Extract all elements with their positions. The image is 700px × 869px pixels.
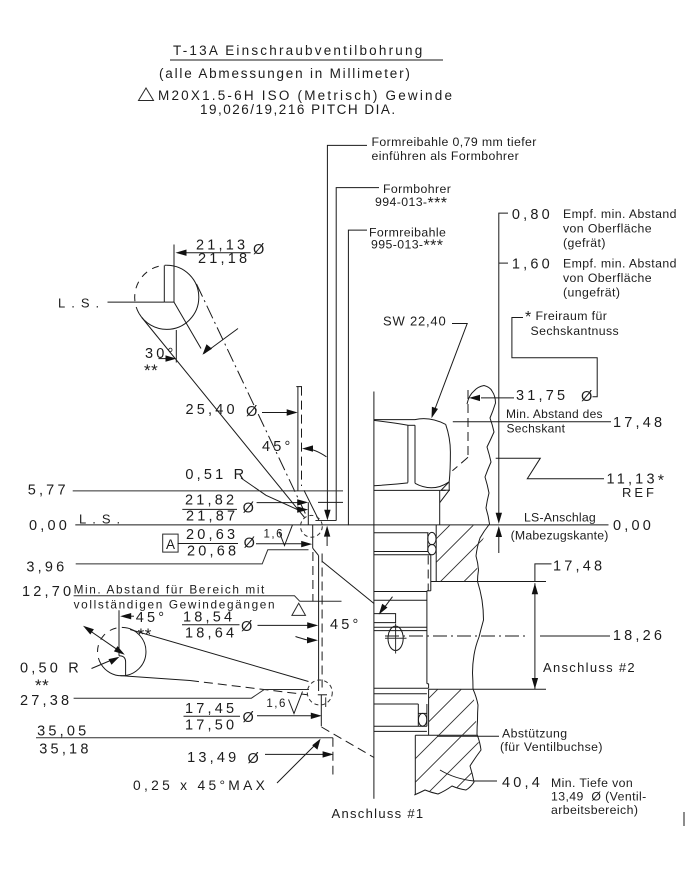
svg-text:20,63: 20,63 bbox=[186, 527, 238, 543]
port 2 upper edge bbox=[431, 581, 546, 583]
svg-text:45°: 45° bbox=[136, 610, 168, 626]
svg-text:Ø: Ø bbox=[248, 751, 262, 767]
detail circle lower (0,50 R) bbox=[101, 627, 146, 675]
incomplete thread hidden line bbox=[312, 552, 314, 602]
lower seat corner step bbox=[318, 694, 327, 696]
hex right face bottom arc bbox=[415, 482, 449, 488]
pilot bore wall bbox=[320, 695, 322, 727]
page tick bottom right bbox=[683, 812, 685, 826]
bore edge in detail bbox=[163, 265, 165, 302]
svg-text:Ø: Ø bbox=[243, 710, 257, 726]
band leader bbox=[381, 597, 393, 612]
svg-text:M20X1.5-6H ISO (Metrisch) Gewi: M20X1.5-6H ISO (Metrisch) Gewinde bbox=[158, 88, 454, 103]
svg-text:17,48: 17,48 bbox=[613, 415, 665, 431]
cross hole ellipse bbox=[388, 626, 403, 650]
svg-text:13,49 Ø (Ventil-: 13,49 Ø (Ventil- bbox=[551, 790, 647, 804]
hex right edge bbox=[446, 424, 451, 481]
svg-text:0,00: 0,00 bbox=[29, 518, 70, 534]
L.S. leader bbox=[108, 301, 165, 303]
hex clearance dashed bbox=[441, 489, 450, 491]
svg-text:Sechskantnuss: Sechskantnuss bbox=[531, 324, 620, 338]
svg-text:Ø: Ø bbox=[241, 619, 255, 635]
svg-text:Ø: Ø bbox=[253, 242, 267, 258]
angular arrow on chamfer bbox=[204, 329, 238, 354]
svg-text:3,96: 3,96 bbox=[26, 560, 67, 576]
svg-text:45°: 45° bbox=[262, 439, 294, 455]
Anschluss 2 dimension line bbox=[534, 583, 536, 689]
valve shoulder right edge bbox=[439, 491, 441, 525]
svg-text:A: A bbox=[166, 537, 175, 552]
datum box A bbox=[163, 534, 178, 552]
valve mid section bbox=[426, 591, 428, 684]
svg-text:18,26: 18,26 bbox=[613, 628, 665, 644]
svg-text:einführen als Formbohrer: einführen als Formbohrer bbox=[372, 149, 520, 163]
svg-text:0,25 x 45°MAX: 0,25 x 45°MAX bbox=[133, 778, 268, 793]
svg-text:arbeitsbereich): arbeitsbereich) bbox=[551, 803, 638, 817]
hex bottom bbox=[374, 489, 446, 491]
thread triangle symbol bbox=[292, 603, 306, 615]
step face in detail bbox=[164, 301, 174, 303]
svg-text:18,54: 18,54 bbox=[183, 610, 235, 626]
hex top bbox=[374, 419, 446, 425]
svg-text:vollständigen Gewindegängen: vollständigen Gewindegängen bbox=[74, 598, 277, 612]
bracket for 0,80 / 1,60 notes bbox=[499, 213, 508, 517]
thread note triangle bbox=[139, 88, 154, 101]
svg-text:(für Ventilbuchse): (für Ventilbuchse) bbox=[500, 740, 603, 754]
extension line for 21,13 bbox=[173, 245, 175, 303]
svg-text:Min. Tiefe von: Min. Tiefe von bbox=[551, 776, 633, 790]
valve thread section bbox=[430, 555, 432, 591]
hidden cone to working bore bbox=[322, 727, 375, 758]
reamer depth line bbox=[315, 520, 336, 522]
detail circle upper (L.S.) bbox=[139, 265, 199, 329]
Freiraum bracket leader bbox=[512, 318, 597, 397]
svg-text:Min. Abstand für Bereich mit: Min. Abstand für Bereich mit bbox=[74, 583, 266, 597]
svg-text:Abstützung: Abstützung bbox=[502, 727, 568, 741]
hatch upper block bbox=[135, 460, 609, 840]
seat step arrows (1,6 band) bbox=[324, 526, 330, 537]
svg-text:L.S.: L.S. bbox=[58, 296, 105, 311]
datum line 0,00 / seat line bbox=[75, 524, 608, 526]
svg-text:von Oberfläche: von Oberfläche bbox=[563, 222, 652, 236]
bore wall right of valve bbox=[435, 525, 437, 582]
svg-text:1,6: 1,6 bbox=[266, 698, 287, 710]
projection line A upper bbox=[142, 318, 305, 518]
seat chamfer bbox=[313, 548, 319, 555]
svg-text:17,48: 17,48 bbox=[553, 559, 605, 575]
svg-text:(ungefrät): (ungefrät) bbox=[563, 286, 620, 300]
svg-text:**: ** bbox=[144, 361, 158, 380]
svg-text:19,026/19,216 PITCH DIA.: 19,026/19,216 PITCH DIA. bbox=[200, 102, 397, 117]
svg-text:**: ** bbox=[138, 625, 152, 644]
svg-text:Formbohrer: Formbohrer bbox=[383, 182, 451, 196]
SW leader bbox=[434, 324, 467, 413]
svg-text:21,87: 21,87 bbox=[186, 509, 238, 525]
hatch lower blocks bbox=[287, 460, 700, 840]
seat bore wall bbox=[312, 525, 314, 548]
valve lines bbox=[374, 626, 427, 628]
corner detail circle upper bbox=[301, 515, 323, 537]
svg-text:21,82: 21,82 bbox=[185, 493, 237, 509]
svg-text:Ø: Ø bbox=[243, 501, 257, 517]
title underline bbox=[170, 59, 443, 61]
svg-text:35,05: 35,05 bbox=[37, 724, 89, 740]
svg-text:0,80: 0,80 bbox=[512, 207, 553, 223]
svg-text:Anschluss #1: Anschluss #1 bbox=[332, 806, 425, 821]
svg-text:17,50: 17,50 bbox=[185, 718, 237, 734]
callout leader 1 (Formreibahle 0,79) bbox=[327, 145, 367, 514]
o-ring groove upper bbox=[427, 533, 429, 552]
seat band rect bbox=[374, 614, 396, 623]
svg-text:1,6: 1,6 bbox=[264, 529, 285, 541]
chamfer to thread bore bbox=[304, 490, 319, 520]
clearance outline dashed bbox=[467, 390, 469, 457]
projection line B upper (dash-dot) bbox=[197, 284, 307, 516]
svg-text:Sechskant: Sechskant bbox=[507, 422, 566, 436]
svg-text:REF: REF bbox=[622, 485, 657, 500]
svg-text:SW 22,40: SW 22,40 bbox=[383, 314, 446, 329]
svg-text:27,38: 27,38 bbox=[20, 693, 72, 709]
svg-text:Min. Abstand des: Min. Abstand des bbox=[506, 407, 603, 421]
o-ring groove lower bbox=[374, 703, 418, 705]
datum arrow up (right) bbox=[496, 526, 502, 537]
svg-text:Empf. min. Abstand: Empf. min. Abstand bbox=[563, 257, 677, 271]
chamfer line in detail bbox=[174, 302, 201, 348]
svg-text:LS-Anschlag: LS-Anschlag bbox=[524, 511, 596, 525]
callout leader 3 (Formreibahle 995) bbox=[348, 230, 367, 525]
30 deg reference line bbox=[175, 330, 177, 363]
svg-text:1,60: 1,60 bbox=[512, 257, 553, 273]
valve body below seat bbox=[374, 532, 429, 534]
long diagonal to band bbox=[322, 562, 374, 604]
working bore hidden wall bbox=[332, 738, 334, 775]
svg-text:21,18: 21,18 bbox=[198, 251, 250, 267]
thread bore wall upper bbox=[307, 502, 309, 525]
projection line A lower bbox=[130, 630, 309, 682]
svg-text:20,68: 20,68 bbox=[187, 544, 239, 560]
callout leader 2 (Formbohrer) bbox=[336, 188, 379, 521]
hex corner flap bbox=[440, 482, 450, 503]
svg-text:0,00: 0,00 bbox=[613, 518, 654, 534]
svg-text:(alle Abmessungen in Millimete: (alle Abmessungen in Millimeter) bbox=[159, 66, 412, 81]
hex facet edges bbox=[407, 425, 409, 482]
drill bore wall bbox=[318, 556, 320, 691]
svg-text:Ø: Ø bbox=[244, 536, 258, 552]
svg-text:31,75: 31,75 bbox=[516, 388, 568, 404]
hex left facet curve bbox=[374, 420, 408, 425]
leader to hex top bbox=[453, 421, 611, 423]
radius indicator diagonal bbox=[86, 628, 123, 653]
svg-text:Ø: Ø bbox=[581, 389, 595, 405]
svg-text:T-13A Einschraubventilbohrung: T-13A Einschraubventilbohrung bbox=[173, 43, 424, 58]
thread hidden line lower bbox=[321, 554, 323, 688]
svg-text:12,70: 12,70 bbox=[22, 584, 74, 600]
svg-text:von Oberfläche: von Oberfläche bbox=[563, 271, 652, 285]
svg-text:Formreibahle 0,79 mm tiefer: Formreibahle 0,79 mm tiefer bbox=[372, 135, 537, 149]
svg-text:17,45: 17,45 bbox=[185, 701, 237, 717]
corner detail circle lower bbox=[307, 680, 332, 705]
svg-text:(gefrät): (gefrät) bbox=[563, 236, 606, 250]
section break wavy line bbox=[414, 386, 495, 796]
counterbore wall bbox=[297, 387, 299, 491]
svg-text:25,40: 25,40 bbox=[186, 402, 238, 418]
svg-text:Ø: Ø bbox=[246, 404, 260, 420]
datum arrow down (right) bbox=[496, 513, 502, 524]
svg-text:18,64: 18,64 bbox=[185, 626, 237, 642]
port 2 lower edge bbox=[429, 688, 546, 690]
svg-text:45°: 45° bbox=[330, 617, 362, 633]
svg-text:(Mabezugskante): (Mabezugskante) bbox=[511, 529, 609, 543]
support shoulder bbox=[415, 734, 477, 736]
svg-text:13,49: 13,49 bbox=[187, 750, 239, 766]
counterbore hidden line bbox=[301, 387, 303, 486]
bore top cap bbox=[296, 386, 302, 388]
svg-text:40,4: 40,4 bbox=[502, 775, 543, 791]
svg-text:0,50 R: 0,50 R bbox=[20, 661, 82, 677]
svg-text:5,77: 5,77 bbox=[28, 483, 69, 499]
valve centerline / left edge bbox=[373, 392, 375, 799]
svg-text:Empf. min. Abstand: Empf. min. Abstand bbox=[563, 207, 677, 221]
projection line B lower bbox=[120, 676, 190, 681]
leader 11,13 bbox=[496, 458, 604, 479]
svg-text:0,51 R: 0,51 R bbox=[185, 467, 247, 483]
svg-text:35,18: 35,18 bbox=[39, 742, 91, 758]
svg-text:Anschluss #2: Anschluss #2 bbox=[543, 660, 636, 675]
svg-text:L.S.: L.S. bbox=[79, 512, 126, 527]
